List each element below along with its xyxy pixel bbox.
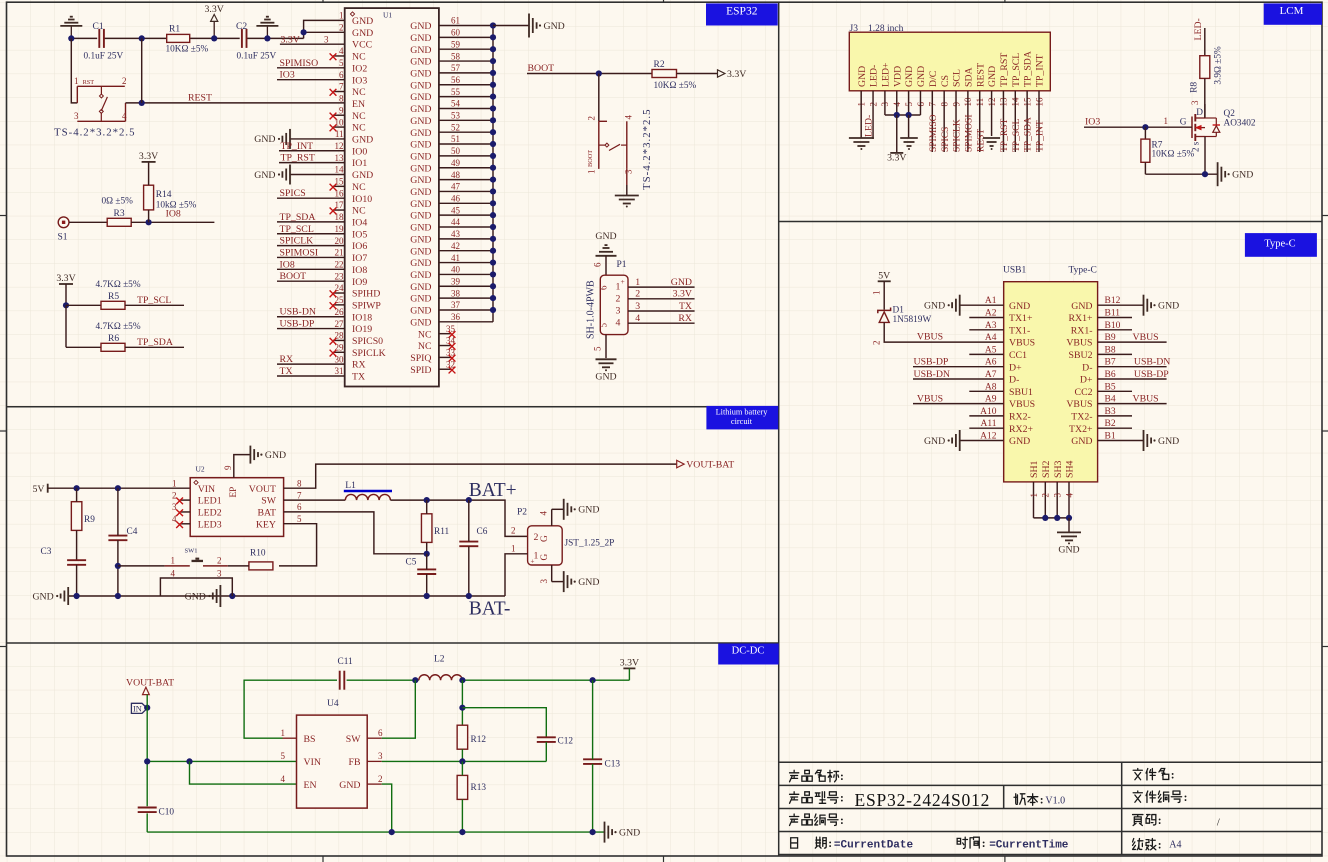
svg-text::: :: [982, 838, 986, 850]
svg-text:REST: REST: [975, 63, 986, 87]
resistor R8: [1200, 56, 1210, 79]
U1 pin13 wire TP_RST: [279, 162, 345, 164]
svg-text:8: 8: [339, 94, 344, 104]
svg-text:GND: GND: [410, 294, 431, 305]
wire BS to C11 (green): [244, 680, 337, 738]
svg-text::: :: [1040, 795, 1044, 807]
port IN: [131, 703, 147, 713]
svg-text:IO3: IO3: [1085, 117, 1100, 128]
P1 right pin wires: [628, 286, 695, 288]
pin B1 wire to ground: [1098, 440, 1144, 442]
wire shield tie: [1034, 517, 1070, 519]
ground symbol battery left: [67, 587, 69, 605]
switch SW1 lower loop: [160, 578, 232, 596]
svg-text:VCC: VCC: [352, 40, 372, 51]
svg-text:LED-: LED-: [1193, 18, 1204, 40]
svg-text:TP_INT: TP_INT: [1035, 54, 1046, 87]
svg-text:GND: GND: [410, 140, 431, 151]
svg-text:7: 7: [297, 490, 302, 500]
svg-text:6: 6: [599, 285, 609, 290]
P1 pin5 wire to ground: [605, 335, 607, 359]
svg-text:VOUT-BAT: VOUT-BAT: [126, 678, 174, 689]
wire R14 legs: [148, 162, 150, 185]
svg-text:3: 3: [172, 502, 177, 512]
svg-text:2: 2: [534, 532, 539, 543]
svg-text:P2: P2: [517, 508, 527, 518]
power port 3.3V right arrow: [718, 70, 725, 77]
svg-text:AO3402: AO3402: [1224, 118, 1256, 128]
svg-text:19: 19: [335, 224, 345, 234]
pin A7 wire USB-DN: [913, 378, 1004, 380]
title 产品型号:: [790, 792, 799, 804]
svg-text:SPICS: SPICS: [941, 127, 951, 152]
svg-text:3: 3: [539, 579, 549, 584]
svg-text:SH2: SH2: [1041, 460, 1052, 478]
svg-text:GND: GND: [410, 317, 431, 328]
svg-text:C10: C10: [159, 808, 175, 818]
svg-text:ESP32-2424S012: ESP32-2424S012: [855, 790, 991, 810]
U1 pin19 wire TP_SCL: [277, 233, 345, 235]
svg-text:FB: FB: [349, 757, 361, 768]
U1 pin30 wire RX: [277, 363, 345, 365]
P2 pin4 wire to ground: [551, 509, 553, 526]
svg-text:4.7KΩ ±5%: 4.7KΩ ±5%: [96, 322, 141, 332]
svg-text:TX: TX: [280, 366, 293, 377]
ground symbol below USB1: [1057, 531, 1081, 533]
ground symbol battery middle: [219, 585, 221, 607]
svg-text:TX: TX: [679, 301, 692, 312]
U2 LED pin no-connect: [180, 523, 191, 525]
pin A6 wire USB-DP: [913, 366, 1004, 368]
svg-text:LED1: LED1: [198, 496, 222, 507]
svg-text:SPIMISO: SPIMISO: [929, 114, 939, 152]
wire KEY pin to R10: [279, 524, 317, 566]
svg-text:GND: GND: [410, 92, 431, 103]
title 版本:V1.0: [1014, 794, 1025, 805]
svg-text:IO19: IO19: [352, 324, 372, 335]
svg-text:SH1: SH1: [1029, 460, 1040, 478]
switch S RST TS-4.2*3.2*2.5: [77, 85, 125, 87]
svg-text:VBUS: VBUS: [917, 332, 943, 343]
pin A9 wire VBUS: [913, 403, 1004, 405]
svg-text:EN: EN: [304, 780, 317, 791]
svg-text:GND: GND: [410, 246, 431, 257]
svg-text:GND: GND: [410, 175, 431, 186]
svg-text:BS: BS: [304, 734, 316, 745]
svg-text:SPIMOSI: SPIMOSI: [964, 115, 974, 153]
svg-text:SH-1.0-4PWB: SH-1.0-4PWB: [586, 280, 597, 339]
svg-text:R13: R13: [471, 783, 487, 793]
P2 pin3 wire to ground: [551, 565, 553, 582]
ground symbol below J3 pin5: [900, 137, 918, 139]
wire R10 to switch SW1: [228, 565, 249, 567]
svg-text:REST: REST: [976, 129, 986, 152]
svg-text:GND: GND: [254, 170, 275, 181]
node junction C1 left: [68, 35, 74, 41]
svg-text:47: 47: [451, 182, 461, 192]
title 纸张: A4: [1133, 839, 1143, 850]
ground symbol LCM right: [1217, 162, 1219, 186]
USB1 left stub pins: [969, 317, 1003, 319]
svg-text:SPIWP: SPIWP: [352, 300, 381, 311]
svg-text:Type-C: Type-C: [1069, 266, 1097, 276]
svg-text:LED+: LED+: [881, 62, 892, 87]
diode D1 1N5819W: [883, 281, 885, 309]
svg-text:GND: GND: [578, 505, 599, 516]
J3 pin1 stub to ground: [860, 91, 862, 138]
svg-text:5: 5: [281, 751, 286, 761]
svg-text:GND: GND: [410, 223, 431, 234]
svg-text:10KΩ ±5%: 10KΩ ±5%: [1152, 150, 1195, 160]
svg-text:IO9: IO9: [352, 277, 367, 288]
svg-text:IO4: IO4: [352, 218, 367, 229]
svg-text:D-: D-: [1082, 362, 1092, 373]
svg-text:SH4: SH4: [1065, 460, 1076, 478]
svg-text:/: /: [1217, 818, 1220, 829]
node junction R3/R14: [146, 219, 152, 225]
svg-text:4: 4: [172, 514, 177, 524]
svg-text:TS-4.2*3.2*2.5: TS-4.2*3.2*2.5: [54, 127, 135, 139]
svg-text:5: 5: [339, 58, 344, 68]
svg-text:GND: GND: [265, 450, 286, 461]
svg-text:GND: GND: [671, 277, 692, 288]
svg-text:BOOT: BOOT: [587, 150, 594, 167]
svg-text:ESP32: ESP32: [726, 6, 758, 18]
node junction C6 top: [466, 497, 472, 503]
J3 pin12 stub to ground: [991, 91, 993, 136]
U1 pin5 wire SPIMISO: [277, 67, 345, 69]
resistor R7: [1141, 139, 1150, 162]
wire SW pin to L1: [284, 499, 346, 501]
resistor R11: [421, 514, 432, 543]
node junction L2 out: [459, 677, 465, 683]
USB1 right stub pins: [1098, 317, 1132, 319]
svg-text:1: 1: [1164, 116, 1169, 126]
node junction REST: [139, 100, 145, 106]
svg-text:GND: GND: [916, 66, 927, 87]
svg-text:U4: U4: [327, 699, 339, 709]
node junction C13 top: [590, 677, 596, 683]
resistor R1: [167, 34, 190, 42]
wire R8 to Q2 drain: [1204, 78, 1206, 118]
svg-text:R10: R10: [250, 549, 266, 559]
svg-text:NC: NC: [352, 87, 366, 98]
svg-text:USB-DP: USB-DP: [280, 319, 315, 330]
svg-text:SW: SW: [261, 496, 276, 507]
ground symbol below BOOT switch: [626, 185, 628, 196]
svg-text:GND: GND: [410, 128, 431, 139]
ground rail DC-DC (green): [147, 831, 604, 833]
svg-text:R3: R3: [114, 209, 125, 219]
svg-text:0.1uF 25V: 0.1uF 25V: [237, 52, 277, 62]
svg-text:GND: GND: [1058, 545, 1079, 556]
svg-text:SH3: SH3: [1053, 460, 1064, 478]
svg-text:IO8: IO8: [352, 265, 367, 276]
border zone tick marks: [322, 0, 324, 2]
svg-text:46: 46: [451, 193, 461, 203]
svg-text:2: 2: [587, 116, 597, 121]
svg-text:LED2: LED2: [198, 508, 222, 519]
svg-text:P1: P1: [617, 260, 627, 270]
svg-text:GND: GND: [339, 780, 360, 791]
svg-text:Lithium battery: Lithium battery: [716, 408, 769, 417]
resistor R5: [101, 301, 125, 309]
svg-text:SPICS0: SPICS0: [352, 336, 383, 347]
GND bus vertical: [492, 26, 494, 322]
svg-text:41: 41: [451, 253, 460, 263]
svg-text:R2: R2: [654, 60, 665, 70]
U1 pin6 wire IO3: [277, 79, 345, 81]
svg-text:27: 27: [335, 319, 345, 329]
svg-text:55: 55: [451, 87, 461, 97]
wire VCC net to U1 pins 1-3: [304, 20, 345, 38]
J3 pins 13-16 net wires: [1002, 91, 1004, 152]
svg-text:GND: GND: [1232, 170, 1253, 181]
node junction SW/L2: [412, 677, 418, 683]
wire U4 GND pin down (green): [382, 784, 392, 832]
wire TP_SCL: [125, 304, 184, 306]
wire BOOT net: [527, 73, 652, 75]
svg-text:TP_SCL: TP_SCL: [137, 295, 171, 306]
wire VDD down to 3.3V: [896, 115, 898, 153]
ground symbol top-left: [70, 26, 72, 39]
wire C11 to L2 node (green): [347, 679, 419, 681]
section divider vertical center: [778, 2, 780, 856]
U1 pin11 ground: [290, 138, 345, 140]
J3 pin3 LED+ stub: [884, 91, 886, 115]
svg-text:GND: GND: [1158, 301, 1179, 312]
wire shield to ground: [1068, 518, 1070, 533]
svg-text:37: 37: [451, 300, 461, 310]
wire Q2 source down: [1204, 137, 1206, 175]
svg-text:CC1: CC1: [1009, 350, 1027, 361]
resistor R6: [101, 343, 125, 351]
U1 pin20 wire SPICLK: [277, 245, 345, 247]
svg-text:C11: C11: [338, 657, 354, 667]
resistor R14: [144, 185, 154, 210]
svg-text:48: 48: [451, 170, 461, 180]
node junction R5/R6: [63, 302, 69, 308]
svg-text:R14: R14: [156, 190, 172, 200]
svg-text:SDA: SDA: [963, 67, 974, 87]
svg-text:TX1-: TX1-: [1009, 325, 1030, 336]
svg-text:USB-DN: USB-DN: [914, 369, 950, 380]
U1 pin12 wire TP_INT: [279, 150, 345, 152]
svg-text:GND: GND: [410, 211, 431, 222]
svg-text:4: 4: [122, 111, 127, 121]
svg-text:GND: GND: [185, 591, 206, 602]
svg-text:USB-DP: USB-DP: [1134, 369, 1169, 380]
ground symbol below J3 pins1-2: [849, 137, 874, 139]
wire VOUT to VOUT-BAT rail: [284, 464, 677, 488]
section label box Type-C: [1245, 233, 1317, 257]
svg-text:GND: GND: [410, 151, 431, 162]
svg-text:IO3: IO3: [352, 75, 367, 86]
svg-text:GND: GND: [410, 258, 431, 269]
svg-text:IO0: IO0: [352, 146, 367, 157]
svg-text:GND: GND: [410, 33, 431, 44]
U1 pin21 wire SPIMOSI: [277, 256, 345, 258]
wire FB row (green): [382, 760, 547, 762]
svg-text:EN: EN: [352, 99, 365, 110]
svg-text:GND: GND: [352, 135, 373, 146]
wire R7 bottom to ground rail: [1144, 162, 1146, 174]
svg-text:4.7KΩ ±5%: 4.7KΩ ±5%: [96, 280, 141, 290]
wire bus to ground: [493, 25, 529, 27]
svg-text:1: 1: [635, 277, 640, 288]
svg-text:NC: NC: [352, 182, 366, 193]
section label box DC-DC: [718, 644, 779, 665]
node junction C6 gnd: [466, 593, 472, 599]
svg-text:TP_SDA: TP_SDA: [280, 212, 316, 223]
wire EN branch (green): [190, 761, 297, 784]
svg-text:GND: GND: [410, 187, 431, 198]
svg-text:GND: GND: [410, 163, 431, 174]
svg-text:NC: NC: [418, 329, 432, 340]
svg-text::: :: [828, 838, 832, 850]
svg-text:GND: GND: [410, 306, 431, 317]
svg-text:NC: NC: [352, 206, 366, 217]
svg-text:LED-: LED-: [864, 115, 875, 137]
svg-text:51: 51: [451, 134, 460, 144]
wire R13 legs (green): [461, 761, 463, 775]
capacitor C5: [417, 568, 436, 570]
title 产品编号:: [790, 814, 799, 826]
svg-text:G: G: [540, 554, 550, 561]
ground symbol right of U1: [528, 14, 530, 38]
svg-text:TP_RST: TP_RST: [999, 53, 1010, 87]
svg-text:KEY: KEY: [256, 519, 276, 530]
svg-text:D-: D-: [1009, 375, 1019, 386]
connector J3 body 1.28 inch LCD: [849, 32, 1050, 91]
svg-text:EP: EP: [229, 487, 239, 498]
svg-text:2: 2: [635, 289, 640, 300]
svg-text:13: 13: [335, 153, 345, 163]
power port 3.3V for R5/R6: [59, 283, 73, 285]
section divider battery/DC-DC: [7, 642, 779, 644]
svg-text:4: 4: [281, 774, 286, 784]
wire 3.3V rail top: [71, 37, 97, 39]
wire BOOT to switch: [598, 74, 600, 122]
svg-text:TS-4.2*3.2*2.5: TS-4.2*3.2*2.5: [641, 109, 653, 190]
small ground below J3 pin12: [983, 137, 1000, 139]
resistor R3: [107, 218, 131, 226]
svg-text:S1: S1: [58, 233, 68, 243]
svg-text:USB-DN: USB-DN: [280, 307, 316, 318]
svg-text:2: 2: [872, 341, 882, 346]
section divider LCM/Type-C: [779, 221, 1322, 223]
power port 3.3V DC-DC: [623, 667, 635, 669]
svg-text:VOUT-BAT: VOUT-BAT: [686, 460, 734, 471]
wire to C12 top (green): [462, 708, 546, 737]
J3 pin4 VDD stub: [896, 91, 898, 115]
svg-text:2: 2: [1041, 493, 1051, 498]
wire R12 branch (green): [461, 680, 463, 725]
svg-text:GND: GND: [595, 372, 616, 383]
svg-text:6: 6: [297, 502, 302, 512]
svg-text:VIN: VIN: [198, 484, 215, 495]
svg-text:SPICLK: SPICLK: [280, 236, 314, 247]
svg-text:GND: GND: [544, 21, 565, 32]
svg-text:RX2-: RX2-: [1009, 412, 1031, 423]
U1 pin26 wire USB-DN: [277, 316, 345, 318]
pin B7 wire USB-DN: [1098, 366, 1167, 368]
svg-text:R12: R12: [471, 735, 487, 745]
ground symbol below P1: [596, 358, 617, 360]
svg-text:21: 21: [335, 248, 344, 258]
svg-text:GND: GND: [352, 16, 373, 27]
svg-text:12: 12: [335, 141, 344, 151]
svg-text:42: 42: [451, 241, 460, 251]
wire reset branch left vertical: [71, 38, 77, 103]
port direction arrow: [143, 687, 150, 694]
svg-text:2: 2: [511, 526, 516, 536]
svg-text:CS: CS: [940, 75, 951, 87]
svg-text:TX2-: TX2-: [1071, 412, 1092, 423]
svg-text:10kΩ ±5%: 10kΩ ±5%: [156, 201, 197, 211]
svg-text:GND: GND: [987, 66, 998, 87]
title 文件编号:: [1133, 791, 1142, 802]
wire D1 to VBUS A4: [884, 322, 1004, 342]
svg-text:C3: C3: [41, 547, 52, 557]
svg-text:=CurrentDate: =CurrentDate: [834, 840, 914, 852]
svg-text:SPIMOSI: SPIMOSI: [280, 247, 319, 258]
svg-text:GND: GND: [595, 231, 616, 242]
svg-text:IO18: IO18: [352, 312, 372, 323]
svg-text:DC-DC: DC-DC: [732, 646, 765, 657]
svg-text:3: 3: [1053, 493, 1063, 498]
node junction FB: [459, 758, 465, 764]
node junctions pins4-5: [894, 112, 900, 118]
title 日期 =CurrentDate: [791, 838, 798, 848]
svg-text:VBUS: VBUS: [1009, 399, 1035, 410]
svg-text:1: 1: [511, 544, 516, 554]
svg-text:C1: C1: [93, 22, 104, 32]
shield junctions: [1042, 515, 1048, 521]
svg-text:+: +: [531, 558, 535, 566]
svg-text:GND: GND: [924, 301, 945, 312]
svg-text:3: 3: [1190, 100, 1200, 105]
svg-text:SPICLK: SPICLK: [953, 119, 963, 152]
svg-text:61: 61: [451, 16, 460, 26]
node junctions DC-DC gnd rail: [389, 829, 395, 835]
svg-text:SPIHD: SPIHD: [352, 289, 380, 300]
svg-text:3.3V: 3.3V: [56, 273, 75, 284]
svg-text:3: 3: [217, 568, 222, 578]
svg-text::: :: [1171, 769, 1175, 781]
svg-text:3.3V: 3.3V: [205, 4, 224, 15]
svg-text:1: 1: [74, 76, 79, 86]
svg-text:C2: C2: [236, 22, 247, 32]
svg-text:38: 38: [451, 288, 461, 298]
U1 pin31 wire TX: [277, 375, 345, 377]
title block table: [779, 761, 1322, 763]
svg-text:C4: C4: [127, 527, 138, 537]
resistor R9: [71, 502, 82, 531]
svg-text:GND: GND: [410, 116, 431, 127]
power port 3.3V above R14: [142, 161, 156, 163]
section divider ESP32/battery: [7, 406, 779, 408]
node junction VIN row: [144, 758, 150, 764]
pin A12 wire to ground: [960, 440, 1004, 442]
svg-text:circuit: circuit: [731, 417, 753, 426]
capacitor C12: [537, 736, 556, 738]
svg-text:6: 6: [339, 70, 344, 80]
svg-text:IO2: IO2: [352, 63, 367, 74]
J3 pin2 wire LED-: [872, 91, 874, 139]
wire IO3 to gate: [1084, 126, 1192, 128]
svg-text:TP_INT: TP_INT: [281, 141, 314, 152]
